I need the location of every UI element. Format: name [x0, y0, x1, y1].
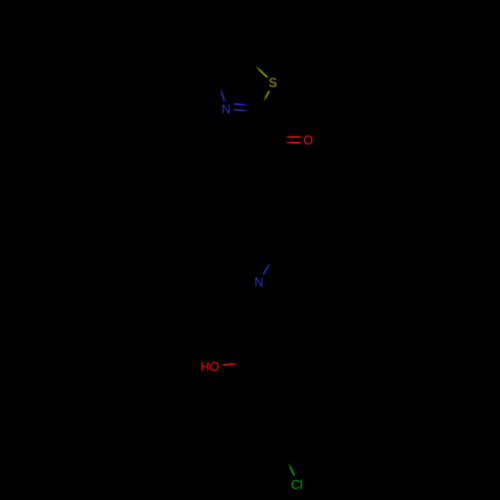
bond C=O double bond lower line (oxygen half, red)	[286, 142, 300, 144]
bond Cl1-C (chlorine half, green)	[289, 463, 295, 475]
svg-text:S: S	[269, 76, 277, 90]
bond S1-C2 (sulfur half, yellow)	[264, 91, 269, 101]
bond C=O double bond upper line (oxygen half, red)	[286, 136, 300, 138]
bond O2-C (oxygen half, red)	[223, 364, 236, 365]
bond N3-C4 (nitrogen half, blue)	[221, 89, 225, 101]
svg-text:Cl: Cl	[291, 478, 303, 492]
bond N2-C (nitrogen half, blue, up-right)	[263, 263, 270, 274]
svg-text:N: N	[222, 103, 231, 117]
bond S1-C5 (sulfur half, yellow)	[256, 66, 268, 77]
svg-text:N: N	[254, 276, 263, 290]
svg-text:O: O	[303, 134, 313, 148]
svg-text:HO: HO	[201, 360, 220, 374]
bond N3=C2 double bond lower line (nitrogen half, blue)	[234, 110, 248, 111]
bond N3=C2 double bond upper line (nitrogen half, blue)	[234, 104, 247, 105]
